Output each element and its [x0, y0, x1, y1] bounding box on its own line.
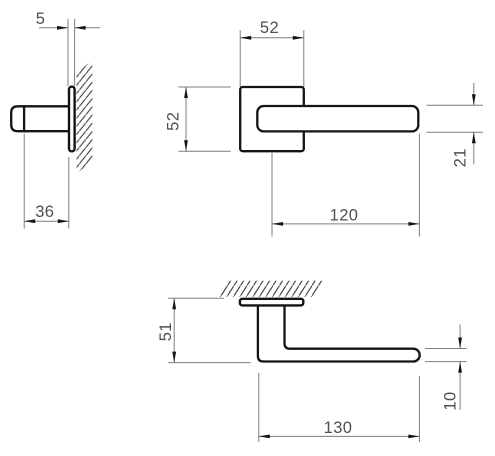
svg-text:5: 5 [36, 10, 46, 28]
dimension 120: arrowheads [272, 222, 419, 226]
svg-text:52: 52 [260, 19, 279, 37]
svg-text:21: 21 [451, 148, 469, 167]
svg-text:36: 36 [35, 203, 54, 221]
dimension 52 top: dimension line [240, 37, 304, 39]
dimension 51: arrowheads [172, 298, 176, 362]
handle neck (side view) [24, 106, 68, 131]
wall hatching (side view, bottom) [216, 281, 325, 297]
dimension 36: extension lines [24, 134, 69, 229]
rose plate (side view) [69, 87, 75, 152]
handle profile (bottom side view) [258, 305, 420, 362]
svg-text:52: 52 [165, 112, 183, 131]
dimension 52 left: arrowheads [184, 87, 188, 151]
svg-text:130: 130 [324, 419, 353, 437]
dimension 21: arrowheads [472, 94, 476, 143]
dimension 10: dimension line segments [459, 324, 461, 410]
dimension 130: extension lines [259, 373, 420, 442]
dimension 120: extension lines [272, 134, 419, 237]
dimension 5: extension lines [68, 19, 75, 86]
wall hatching (side view, top-left) [77, 60, 93, 174]
dimension 52 top: extension lines [240, 30, 304, 87]
dimension 120: dimension line [272, 223, 419, 225]
dimension 52 left: extension lines [178, 87, 231, 151]
dimension 5: dimension line [39, 27, 100, 29]
dimension 52 top: arrowheads [240, 36, 304, 40]
svg-text:51: 51 [157, 322, 175, 341]
svg-text:10: 10 [442, 391, 460, 410]
dimension 130: arrowheads [259, 435, 420, 439]
dimension 10: arrowheads [458, 338, 462, 373]
dimension 36: dimension line [24, 220, 69, 222]
handle end cap (side view) [11, 106, 24, 131]
dimension 21: extension lines [426, 105, 483, 132]
lever handle (front view) [257, 106, 418, 131]
rose plate (bottom side view) [240, 299, 303, 306]
dimension 51: extension lines [168, 298, 250, 362]
dimension 52 left: dimension line [185, 87, 187, 151]
square rose (front view) [240, 87, 304, 151]
dimension 130: dimension line [259, 435, 420, 437]
svg-text:120: 120 [330, 206, 359, 224]
dimension 21: dimension line segments [473, 83, 475, 164]
dimension 36: arrowheads [24, 219, 69, 223]
dimension 5: arrowheads [57, 26, 86, 30]
dimension 51: dimension line [173, 298, 175, 362]
dimension 10: extension lines [425, 349, 467, 362]
